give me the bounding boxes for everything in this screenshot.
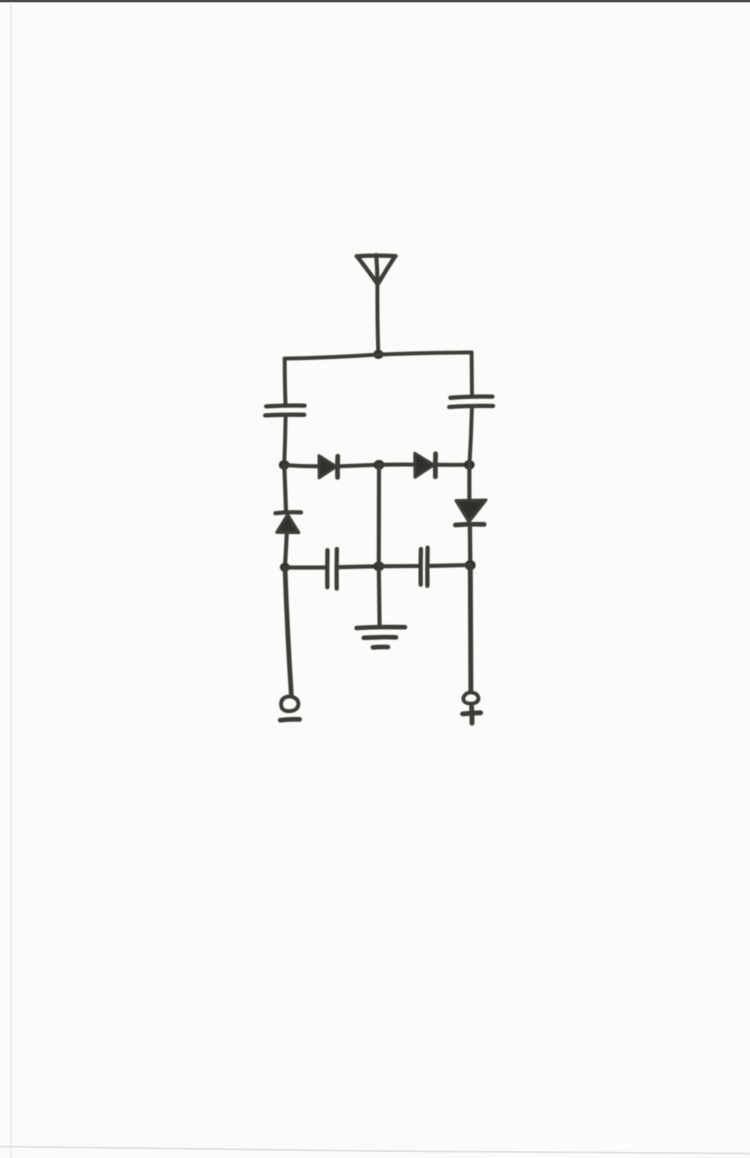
wire top horizontal	[285, 352, 472, 358]
scan edge left	[10, 2, 11, 1158]
wire right output leg	[468, 565, 474, 691]
node center diode-row	[374, 460, 385, 470]
wire cap row seg3	[379, 564, 419, 568]
diode D4	[455, 500, 486, 525]
wire left output leg	[285, 568, 291, 696]
wire D3 to node	[285, 533, 287, 566]
wire D4 to node	[468, 527, 473, 564]
wire diode row seg1	[284, 465, 318, 466]
diode D1	[319, 456, 338, 478]
wire left leg upper	[283, 359, 288, 405]
node bottom center	[373, 561, 384, 571]
wire ground lead	[377, 566, 382, 625]
node bottom left	[280, 563, 290, 572]
wire antenna lead	[375, 285, 380, 354]
wire right leg to D4	[467, 465, 471, 499]
wire diode row seg4	[437, 463, 469, 467]
node right diode-row	[464, 460, 475, 470]
diode D3	[275, 512, 301, 532]
capacitor C1	[265, 406, 304, 416]
node bottom right	[465, 560, 476, 570]
wire right leg mid	[470, 409, 472, 464]
wire cap row seg2	[339, 564, 379, 569]
ground	[357, 627, 405, 647]
wire left leg to D3	[284, 465, 286, 510]
wire right leg upper	[470, 353, 474, 396]
wire diode row seg2	[340, 465, 379, 467]
antenna	[357, 255, 396, 285]
node antenna junction	[373, 350, 383, 359]
wire center vertical	[377, 465, 381, 566]
scan edge bottom	[0, 1147, 750, 1154]
wire cap row seg4	[430, 563, 471, 568]
capacitor C3	[327, 549, 337, 589]
scan edge top	[0, 0, 750, 2]
node left diode-row	[279, 460, 290, 470]
diode D2	[415, 453, 436, 477]
capacitor C4	[421, 548, 428, 586]
wire cap row seg1	[285, 565, 326, 569]
terminal minus	[280, 697, 299, 721]
wire diode row seg3	[379, 463, 414, 467]
capacitor C2	[449, 397, 493, 407]
terminal plus	[463, 692, 481, 723]
wire left leg mid	[284, 417, 285, 464]
